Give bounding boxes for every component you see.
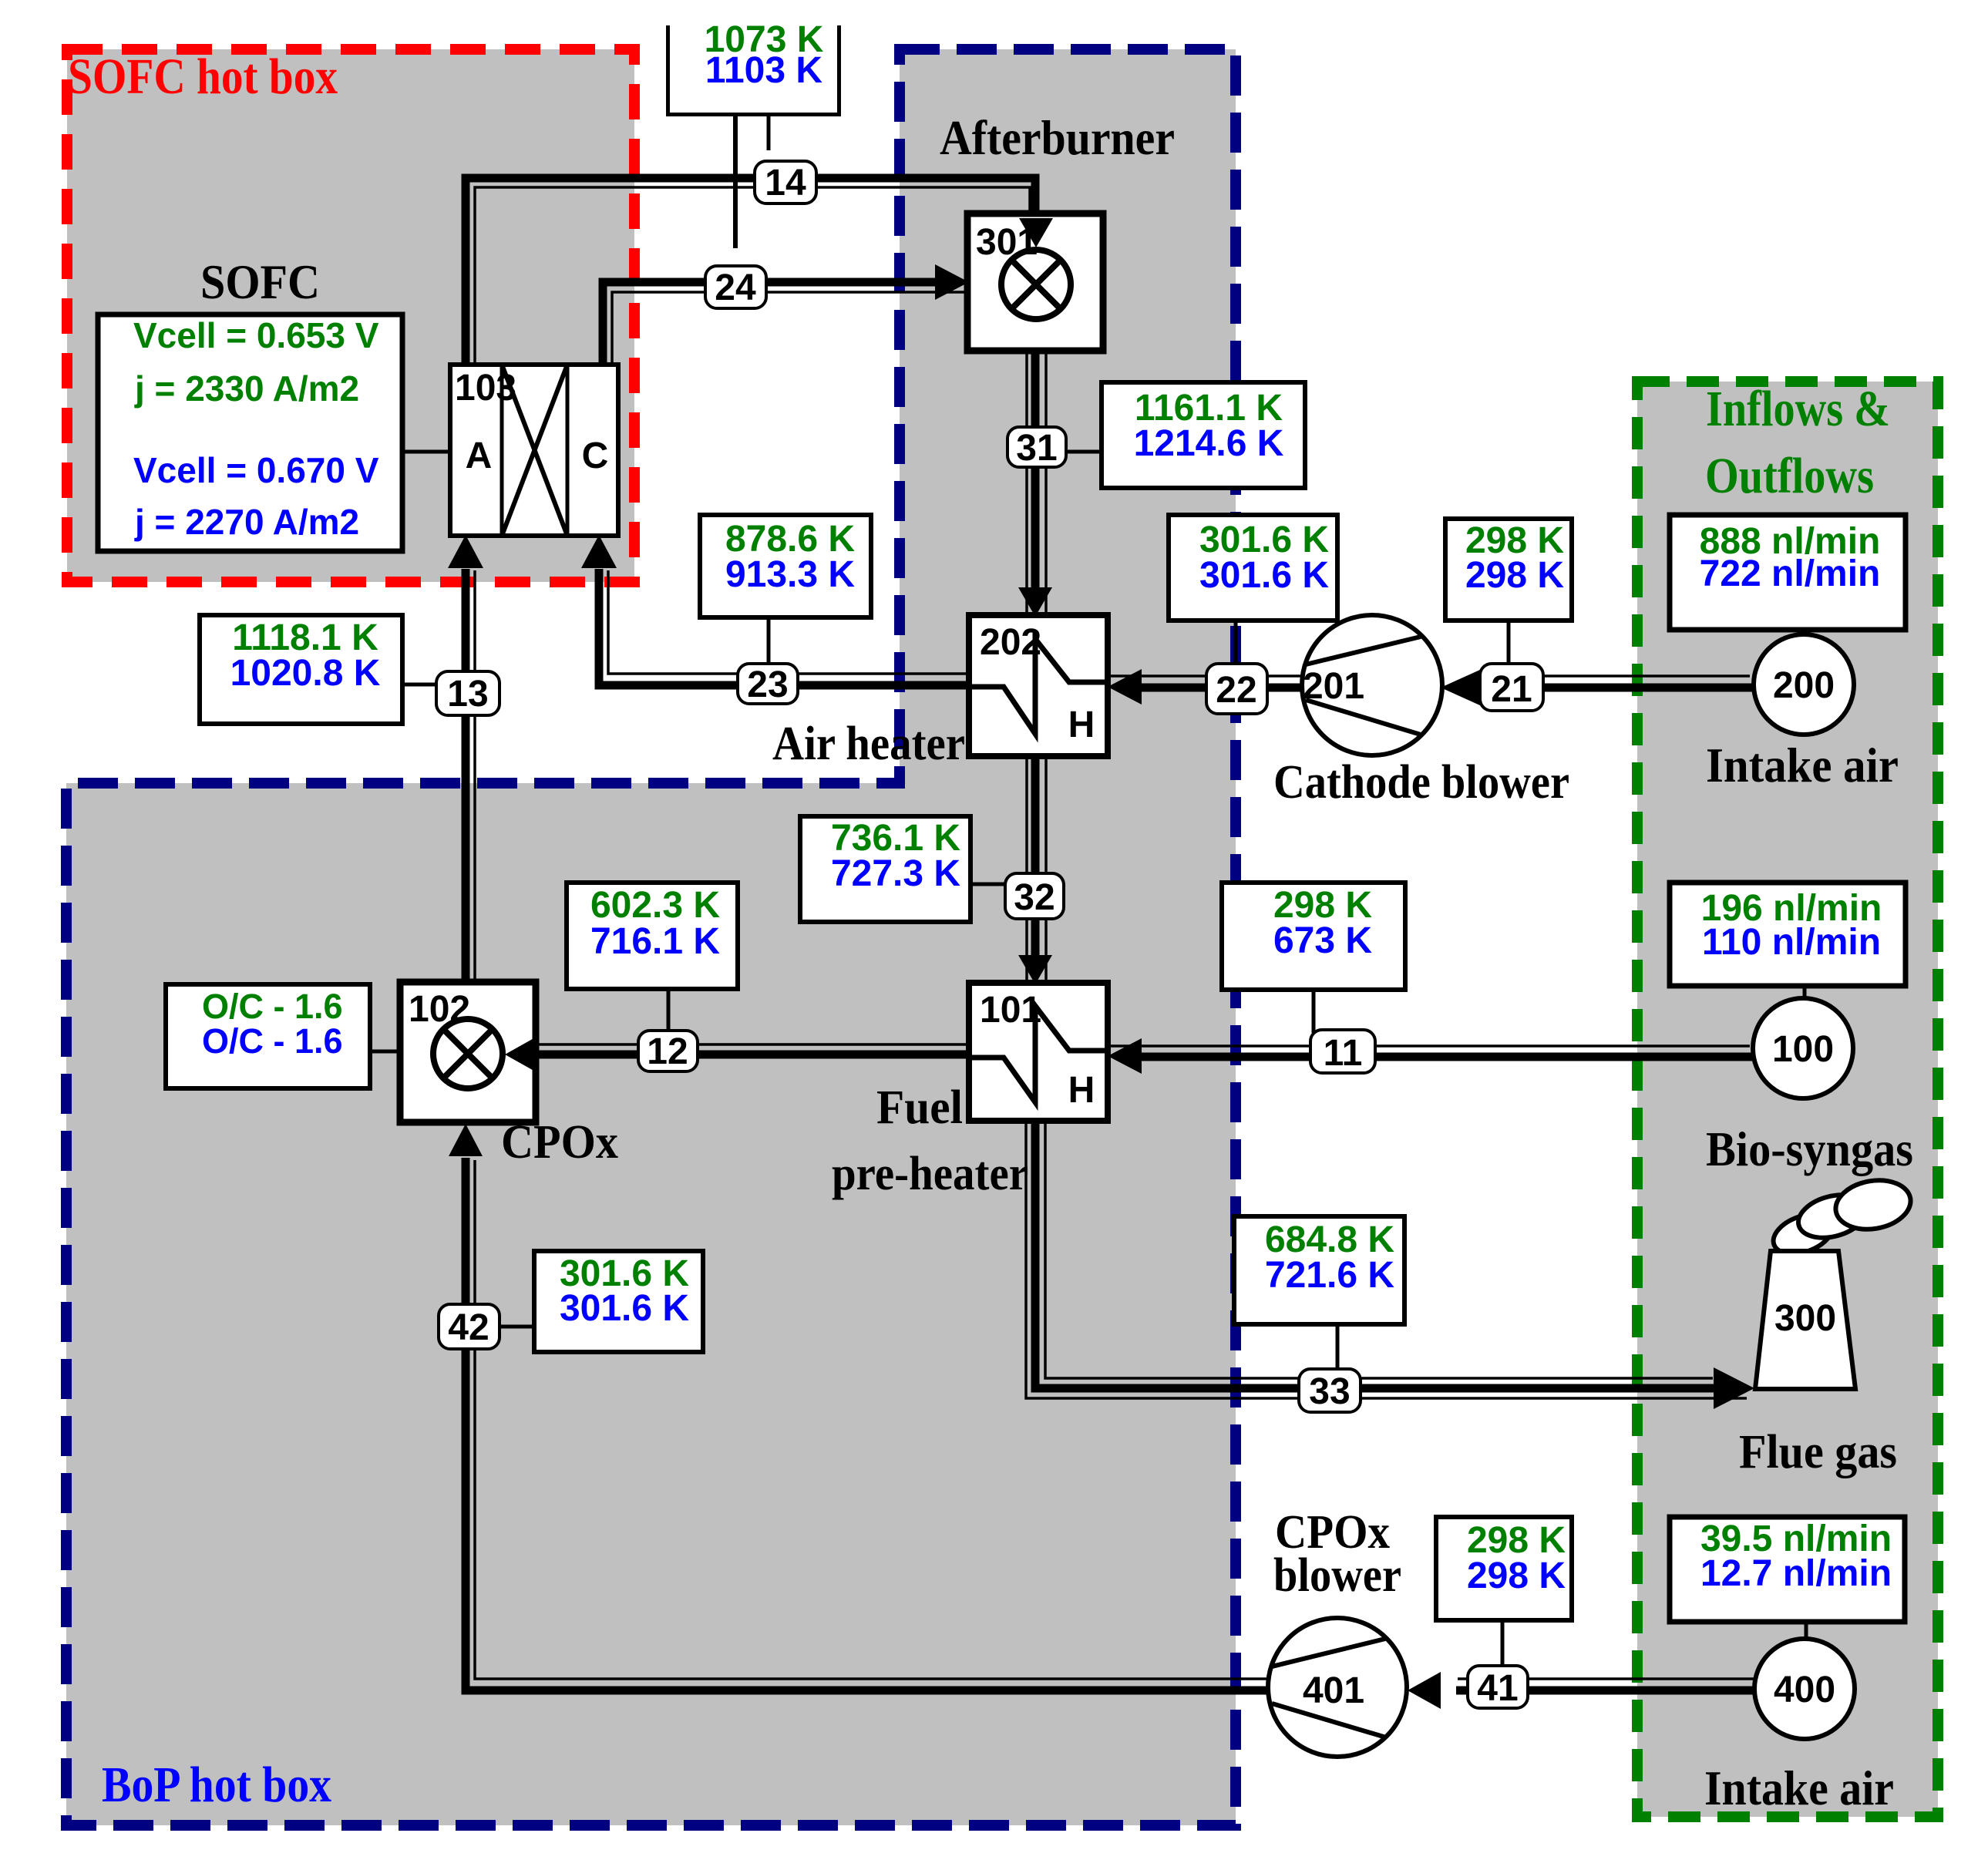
svg-text:202: 202 (980, 622, 1041, 663)
node label 23 (738, 664, 798, 705)
svg-text:23: 23 (747, 664, 788, 705)
svg-text:913.3 K: 913.3 K (725, 554, 855, 595)
node label 12 (638, 1031, 698, 1072)
label BoP hot box (102, 1757, 331, 1813)
Inflows and Outflows gray region (1637, 382, 1938, 1817)
arrow stream 11 into fuel pre-heater (1108, 1038, 1142, 1074)
svg-text:31: 31 (1016, 428, 1057, 469)
intake air source 200 (1754, 634, 1854, 735)
value box CPOx O/C ratio (166, 984, 400, 1088)
svg-text:721.6 K: 721.6 K (1265, 1255, 1394, 1296)
svg-text:12.7 nl/min: 12.7 nl/min (1700, 1553, 1892, 1594)
svg-text:Fuel: Fuel (876, 1081, 963, 1134)
svg-text:Inflows &: Inflows & (1706, 381, 1890, 437)
arrow stream 21 into cathode blower (1441, 669, 1482, 706)
svg-text:602.3 K: 602.3 K (590, 885, 720, 926)
svg-text:22: 22 (1216, 670, 1256, 711)
value box stream 14: 1073 K / 1103 K (666, 19, 841, 248)
svg-text:298 K: 298 K (1465, 555, 1564, 596)
wire stream 11 (bio-syngas 100 to fuel pre-heater) (1110, 1046, 1754, 1057)
node label 13 (436, 671, 500, 715)
arrow stream 13 into SOFC anode (448, 535, 483, 568)
svg-text:j = 2330 A/m2: j = 2330 A/m2 (134, 368, 359, 409)
value box stream 22: 301.6 K / 301.6 K (1169, 515, 1337, 664)
wire stream 31 (afterburner to air heater) (1027, 351, 1046, 614)
svg-text:33: 33 (1309, 1371, 1350, 1412)
svg-text:Air heater: Air heater (772, 718, 965, 770)
wire stream 13 (CPOx to SOFC anode) (466, 569, 475, 982)
svg-text:400: 400 (1774, 1670, 1835, 1710)
Inflows and Outflows green dashed border (1637, 382, 1938, 1817)
BoP hot box gray region (66, 49, 1236, 1825)
value box stream 33: 684.8 K / 721.6 K (1234, 1216, 1404, 1369)
arrow stream 24 into afterburner (935, 264, 969, 300)
value box stream 32: 736.1 K / 727.3 K (800, 816, 1005, 922)
wire stream 12 (fuel pre-heater to CPOx) (537, 1044, 969, 1054)
svg-text:722 nl/min: 722 nl/min (1700, 553, 1881, 594)
svg-text:H: H (1068, 705, 1095, 745)
svg-text:24: 24 (715, 267, 756, 308)
svg-text:300: 300 (1774, 1298, 1836, 1339)
svg-text:H: H (1068, 1070, 1095, 1111)
svg-text:32: 32 (1014, 877, 1055, 918)
value box SOFC: Vcell and j (98, 314, 450, 551)
wire stream 14 (SOFC anode out to afterburner) (466, 178, 1035, 365)
flue gas stack 300 with smoke (1755, 1175, 1915, 1389)
svg-text:Vcell = 0.670 V: Vcell = 0.670 V (133, 450, 379, 490)
label Inflows & Outflows (1705, 381, 1890, 504)
svg-text:Flue gas: Flue gas (1739, 1426, 1897, 1478)
node label 41 (1468, 1666, 1528, 1709)
svg-text:A: A (466, 436, 493, 476)
svg-text:Intake air: Intake air (1704, 1761, 1894, 1815)
wire stream 42 (CPOx blower to CPOx) (466, 1158, 1272, 1690)
svg-text:103: 103 (455, 368, 516, 409)
svg-text:Intake air: Intake air (1706, 738, 1899, 792)
wire stream 22 (cathode blower to air heater) (1110, 676, 1303, 688)
svg-text:301.6 K: 301.6 K (1199, 555, 1329, 596)
node label 14 (755, 161, 816, 203)
svg-text:O/C - 1.6: O/C - 1.6 (202, 987, 343, 1026)
cathode blower 201 (1302, 615, 1442, 755)
SOFC hot box gray region (67, 49, 634, 582)
fuel pre-heater 101 (969, 983, 1108, 1121)
value box stream 41: 298 K / 298 K (1436, 1517, 1572, 1665)
wire stream 33 (fuel pre-heater to flue gas stack) (1026, 1121, 1747, 1398)
arrow stream 23 into SOFC cathode (581, 535, 617, 568)
svg-text:102: 102 (409, 989, 470, 1030)
arrow stream 42 into CPOx (449, 1124, 483, 1156)
afterburner 301 (967, 214, 1103, 351)
svg-text:201: 201 (1303, 666, 1364, 707)
svg-text:SOFC hot box: SOFC hot box (68, 49, 338, 105)
wire stream 32 (air heater to fuel pre-heater) (1027, 756, 1046, 981)
svg-text:42: 42 (448, 1307, 489, 1348)
svg-text:673 K: 673 K (1273, 920, 1372, 961)
svg-text:blower: blower (1273, 1549, 1401, 1602)
svg-text:pre-heater: pre-heater (832, 1148, 1028, 1200)
label Afterburner (940, 110, 1175, 165)
intake air source 400 (1754, 1639, 1855, 1739)
svg-text:1214.6 K: 1214.6 K (1134, 423, 1284, 464)
value box stream 23: 878.6 K / 913.3 K (700, 515, 871, 664)
SOFC stack 103 (450, 365, 618, 536)
svg-text:CPOx: CPOx (501, 1116, 618, 1169)
svg-text:O/C - 1.6: O/C - 1.6 (202, 1021, 343, 1061)
wire stream 23 (air heater to SOFC cathode) (599, 569, 969, 685)
svg-text:Bio-syngas: Bio-syngas (1706, 1122, 1913, 1176)
arrow stream 32 into fuel pre-heater (1018, 955, 1052, 984)
value box stream 11: 298 K / 673 K (1222, 883, 1405, 1033)
svg-text:200: 200 (1773, 665, 1835, 706)
svg-text:401: 401 (1303, 1670, 1364, 1711)
svg-text:21: 21 (1491, 669, 1532, 710)
svg-text:SOFC: SOFC (200, 254, 320, 309)
BoP hot box blue dashed border (66, 49, 1236, 1825)
svg-text:Outflows: Outflows (1705, 448, 1874, 504)
svg-text:12: 12 (647, 1031, 688, 1072)
label Intake air top (1706, 738, 1899, 792)
svg-text:13: 13 (447, 674, 488, 715)
label CPOx (501, 1116, 618, 1169)
air heater 202 (969, 615, 1108, 756)
label Cathode blower (1273, 756, 1569, 809)
arrow stream 31 into air heater (1018, 587, 1052, 617)
value box stream 21: 298 K / 298 K (1445, 519, 1572, 663)
svg-text:1020.8 K: 1020.8 K (230, 653, 381, 694)
svg-text:Cathode blower: Cathode blower (1273, 756, 1569, 809)
node label 33 (1299, 1369, 1361, 1412)
node label 31 (1007, 427, 1066, 469)
SOFC hot box red dashed border (67, 49, 634, 582)
svg-text:14: 14 (765, 163, 806, 203)
node label 32 (1005, 873, 1064, 919)
arrow stream 41 into CPOx blower (1408, 1672, 1441, 1709)
svg-text:298 K: 298 K (1467, 1556, 1566, 1596)
wire stream 24 (SOFC cathode out to afterburner) (603, 282, 967, 365)
value box stream 13: 1118.1 K / 1020.8 K (200, 615, 436, 724)
CPOx reactor 102 (400, 982, 536, 1122)
svg-text:101: 101 (980, 990, 1041, 1031)
svg-text:Afterburner: Afterburner (940, 110, 1175, 165)
value box stream 42: 301.6 K / 301.6 K (500, 1251, 703, 1352)
label Fuel pre-heater (832, 1081, 1028, 1200)
svg-text:BoP hot box: BoP hot box (102, 1757, 331, 1813)
value box stream 100: 196 nl/min / 110 nl/min (1670, 883, 1906, 1001)
svg-text:100: 100 (1772, 1029, 1834, 1070)
node label 11 (1310, 1030, 1375, 1074)
node label 21 (1480, 664, 1543, 711)
svg-text:C: C (582, 436, 609, 476)
wire stream 41 (intake air 400 to CPOx blower) (1456, 1679, 1760, 1690)
value box stream 12: 602.3 K / 716.1 K (567, 883, 738, 1031)
svg-text:j = 2270 A/m2: j = 2270 A/m2 (134, 502, 359, 542)
svg-text:Vcell = 0.653 V: Vcell = 0.653 V (133, 315, 379, 355)
label Intake air bottom (1704, 1761, 1894, 1815)
label Flue gas (1739, 1426, 1897, 1478)
svg-text:11: 11 (1324, 1033, 1363, 1074)
arrow stream 33 into flue gas stack (1714, 1367, 1754, 1409)
label CPOx blower (1273, 1506, 1401, 1602)
svg-text:716.1 K: 716.1 K (590, 921, 720, 962)
svg-text:110 nl/min: 110 nl/min (1702, 922, 1881, 963)
wire stream 21 (intake air 200 to cathode blower) (1482, 676, 1755, 688)
value box stream 400: 39.5 nl/min / 12.7 nl/min (1670, 1517, 1905, 1640)
label Air heater (772, 718, 965, 770)
svg-text:301.6 K: 301.6 K (560, 1288, 689, 1329)
svg-text:41: 41 (1477, 1668, 1518, 1709)
value box stream 200: 888 nl/min / 722 nl/min (1670, 515, 1906, 635)
arrow stream 12 into CPOx (505, 1037, 537, 1072)
arrow stream 14 into afterburner (1019, 218, 1053, 247)
node label 22 (1206, 664, 1267, 714)
CPOx blower 401 (1268, 1618, 1407, 1757)
label SOFC hot box (68, 49, 338, 105)
svg-text:727.3 K: 727.3 K (831, 853, 960, 894)
bio-syngas source 100 (1753, 998, 1853, 1098)
label Bio-syngas (1706, 1122, 1913, 1176)
node label 24 (705, 266, 766, 308)
svg-text:1103 K: 1103 K (705, 50, 822, 91)
value box stream 31: 1161.1 K / 1214.6 K (1066, 382, 1305, 488)
label SOFC (200, 254, 320, 309)
node label 42 (439, 1304, 500, 1349)
arrow stream 22 into air heater (1108, 669, 1142, 705)
